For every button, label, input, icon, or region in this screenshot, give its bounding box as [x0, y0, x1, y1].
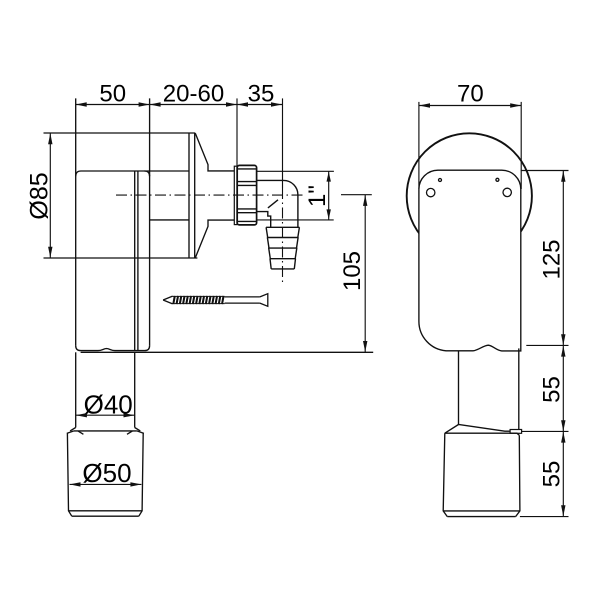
- svg-text:55: 55: [539, 461, 566, 488]
- svg-text:35: 35: [248, 81, 275, 108]
- svg-text:105: 105: [339, 251, 366, 291]
- svg-text:20-60: 20-60: [163, 81, 224, 108]
- svg-text:1": 1": [304, 185, 331, 207]
- svg-text:Ø40: Ø40: [84, 390, 133, 420]
- svg-text:125: 125: [539, 239, 566, 279]
- svg-text:Ø50: Ø50: [82, 458, 131, 488]
- svg-text:50: 50: [99, 81, 126, 108]
- svg-text:55: 55: [539, 376, 566, 403]
- svg-text:Ø85: Ø85: [25, 172, 53, 219]
- svg-text:70: 70: [457, 81, 484, 108]
